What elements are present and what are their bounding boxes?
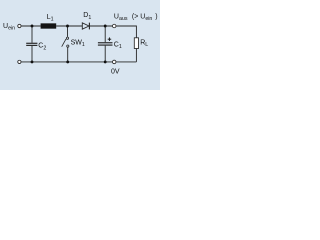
inductor L1 — [41, 23, 57, 28]
wire: SW1 branch upper — [67, 26, 69, 37]
svg-text:0V: 0V — [111, 68, 120, 75]
polarity + of C1 — [108, 37, 112, 41]
diode D1 — [82, 23, 89, 30]
wire top: Uaus terminal to RL corner — [116, 26, 136, 38]
wire: C1 branch upper — [104, 26, 106, 42]
capacitor C2 — [26, 43, 37, 46]
wire top: L1 to D1 — [56, 25, 82, 27]
terminal 0V (bottom right) — [112, 60, 116, 64]
wire top: D1 to Uaus terminal — [90, 25, 113, 27]
capacitor C1 (electrolytic, polarity +) — [98, 42, 113, 45]
terminal Uein (input, top left) — [18, 24, 21, 27]
resistor RL (load) — [134, 38, 138, 49]
terminal input bottom left — [18, 60, 21, 63]
node: bottom wire / C1 junction — [104, 60, 107, 63]
node: top wire / C1 junction — [104, 25, 107, 28]
wire: C2 branch lower — [31, 46, 33, 62]
wire: RL bottom stub — [135, 49, 137, 62]
node: bottom wire / C2 junction — [31, 60, 34, 63]
node: top wire / C2 junction — [31, 25, 34, 28]
wire top: Uein terminal to L1 — [21, 25, 40, 27]
wire bottom: left terminal to 0V terminal — [21, 61, 112, 63]
terminal Uaus (output, top right) — [112, 24, 116, 28]
switch SW1 — [62, 37, 69, 47]
node: top wire / SW1 junction — [66, 25, 69, 28]
wire bottom: 0V terminal to RL — [116, 61, 136, 63]
node: bottom wire / SW1 junction — [66, 60, 69, 63]
wire: C1 branch lower — [104, 46, 106, 62]
wire: C2 branch upper — [31, 26, 33, 43]
wire: SW1 branch lower — [67, 47, 69, 62]
